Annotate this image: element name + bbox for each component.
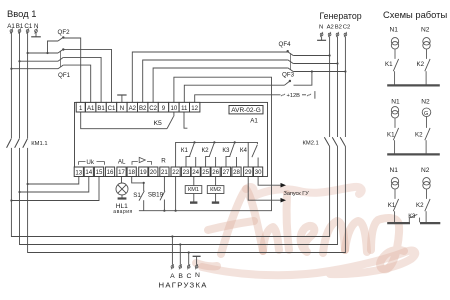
svg-text:N2: N2	[421, 99, 430, 106]
svg-text:QF3: QF3	[282, 71, 295, 78]
svg-text:S1: S1	[133, 192, 141, 199]
svg-text:QF2: QF2	[58, 29, 71, 36]
svg-text:1: 1	[79, 105, 83, 112]
svg-text:14: 14	[85, 169, 92, 176]
svg-text:В: В	[178, 273, 183, 280]
svg-text:Схемы работы: Схемы работы	[383, 9, 447, 20]
svg-text:Запуск ГУ: Запуск ГУ	[284, 191, 310, 197]
svg-text:КМ1.1: КМ1.1	[31, 141, 47, 147]
svg-text:19: 19	[140, 169, 147, 176]
svg-text:24: 24	[192, 169, 199, 176]
svg-text:26: 26	[212, 169, 219, 176]
svg-text:N: N	[195, 272, 200, 279]
svg-text:B2: B2	[139, 105, 147, 112]
svg-text:К1: К1	[181, 147, 189, 154]
svg-text:17: 17	[118, 169, 125, 176]
svg-text:30: 30	[255, 169, 262, 176]
svg-text:15: 15	[96, 169, 103, 176]
svg-text:C2: C2	[149, 105, 157, 112]
svg-text:SB19: SB19	[148, 191, 164, 198]
svg-text:КМ2: КМ2	[210, 187, 221, 193]
svg-text:N: N	[319, 25, 323, 31]
svg-text:N2: N2	[421, 167, 430, 174]
svg-text:N2: N2	[421, 27, 430, 34]
svg-text:авария: авария	[113, 209, 132, 215]
svg-text:25: 25	[202, 169, 209, 176]
svg-text:C2: C2	[343, 25, 351, 31]
svg-text:НАГРУЗКА: НАГРУЗКА	[159, 281, 208, 290]
svg-text:AVR-02-G: AVR-02-G	[231, 107, 261, 114]
svg-text:N: N	[34, 23, 38, 30]
svg-text:Генератор: Генератор	[320, 11, 362, 21]
svg-text:R: R	[161, 158, 166, 165]
svg-text:16: 16	[107, 169, 114, 176]
svg-text:A2: A2	[129, 105, 137, 112]
svg-text:A1: A1	[250, 118, 258, 125]
svg-text:K1: K1	[385, 61, 393, 68]
svg-text:C1: C1	[24, 23, 32, 30]
svg-text:A1: A1	[87, 105, 95, 112]
svg-text:G: G	[424, 111, 428, 117]
svg-text:20: 20	[150, 169, 157, 176]
svg-text:C1: C1	[108, 105, 116, 112]
svg-text:B1: B1	[16, 23, 24, 30]
svg-text:22: 22	[172, 169, 179, 176]
svg-text:QF4: QF4	[279, 41, 292, 48]
svg-text:К2: К2	[202, 147, 210, 154]
svg-text:Ввод 1: Ввод 1	[7, 8, 36, 19]
svg-text:B1: B1	[97, 105, 105, 112]
svg-text:21: 21	[161, 169, 168, 176]
svg-text:С: С	[187, 273, 192, 280]
svg-text:N1: N1	[390, 27, 399, 34]
svg-text:K2: K2	[415, 132, 423, 139]
svg-text:13: 13	[75, 169, 82, 176]
svg-text:29: 29	[245, 169, 252, 176]
svg-text:КМ2.1: КМ2.1	[303, 141, 319, 147]
svg-text:23: 23	[183, 169, 190, 176]
svg-text:K2: K2	[417, 61, 425, 68]
svg-text:11: 11	[181, 105, 188, 112]
svg-text:K5: K5	[154, 120, 163, 127]
svg-text:К3: К3	[222, 147, 230, 154]
svg-text:K1: K1	[388, 202, 396, 209]
svg-text:К3: К3	[408, 213, 416, 220]
svg-text:N1: N1	[391, 99, 400, 106]
svg-text:А: А	[170, 273, 175, 280]
svg-text:A2: A2	[327, 25, 334, 31]
svg-text:Uk: Uk	[86, 159, 94, 166]
svg-text:K2: K2	[416, 202, 424, 209]
svg-text:N: N	[120, 105, 124, 112]
svg-text:B2: B2	[335, 25, 342, 31]
svg-text:К4: К4	[240, 147, 248, 154]
svg-text:27: 27	[223, 169, 230, 176]
svg-text:18: 18	[128, 169, 135, 176]
svg-text:QF1: QF1	[58, 72, 71, 79]
svg-text:28: 28	[233, 169, 240, 176]
svg-text:AL: AL	[118, 158, 126, 165]
svg-text:N1: N1	[390, 167, 399, 174]
svg-text:10: 10	[171, 105, 178, 112]
svg-text:КМ1: КМ1	[188, 187, 199, 193]
svg-text:K1: K1	[387, 132, 395, 139]
svg-text:A1: A1	[7, 23, 15, 30]
svg-text:12: 12	[191, 105, 198, 112]
svg-text:+12В: +12В	[287, 93, 301, 99]
